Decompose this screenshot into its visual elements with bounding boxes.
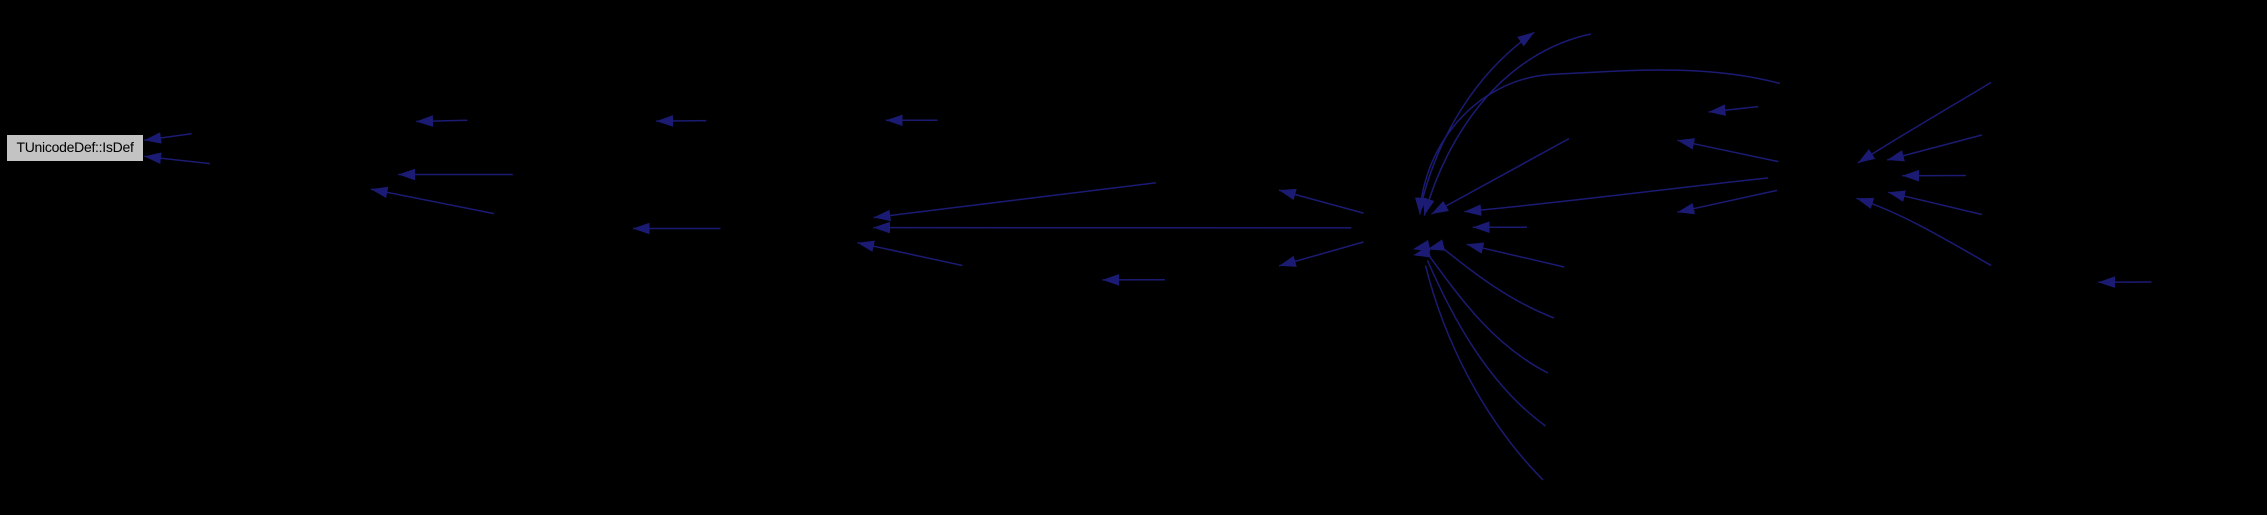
- edge Cdn1 curve from (1548,373) into fan lower: [1430, 256, 1549, 373]
- edge Cup1 curve fan up to tip (1534,32): [1422, 32, 1535, 203]
- edge E6c chain arrow right row1: [886, 119, 938, 121]
- node TUnicodeDef::IsDef (root, grey): [6, 134, 144, 162]
- edge E4 col2 middle horizontal: [398, 174, 513, 176]
- edge E11 slant up-left to (1279,190): [1279, 190, 1364, 213]
- edge E1 into root top-right: [144, 134, 191, 140]
- edge Cs4 curve from (1991,266) up into S (1856,198): [1857, 198, 1992, 265]
- edge Et1 short slant into (1708,112): [1709, 107, 1759, 112]
- edge E6 chain arrow mid: [656, 120, 706, 123]
- edge Cdn2 curve from (1545,426) into fan lower: [1428, 261, 1546, 427]
- edge E3 col2 top chain: [416, 120, 467, 121]
- edge Es3 horizontal into S (1902,176): [1902, 175, 1966, 177]
- edge Carc1 big arc from (1780,83) left-down into fan top: [1420, 70, 1780, 215]
- edge E7 long slant to (873,217): [874, 183, 1156, 218]
- edge Ea4 short horizontal into fan (1473,227): [1473, 226, 1527, 228]
- edge E5 col2 lower slant: [371, 189, 494, 214]
- fan lower blob arrowheads: [1413, 240, 1431, 252]
- edge Es5 slant into S (1888,192): [1888, 192, 1982, 214]
- edge Ea3 long gentle arc into fan (1464,212): [1464, 178, 1768, 212]
- edge arcB curve from (1991,82) into S (1858,163): [1858, 82, 1991, 163]
- edge Cdn3 curve from (1543,480) into fan lower: [1426, 266, 1544, 481]
- edge E9 slant to (857,243): [857, 243, 962, 266]
- edge E10 horizontal arrow y=280: [1102, 279, 1165, 281]
- edge E6b chain arrow mid row2: [633, 228, 721, 230]
- edge E2 into root bottom-right: [144, 156, 210, 163]
- edge Es2 slant into S (1887,160): [1887, 135, 1982, 160]
- edge Eb slant into fan lower (1466,244): [1467, 244, 1565, 267]
- edge Et3 slant into (1677,212): [1677, 190, 1777, 212]
- edge Ea2 straight into fan upper (1431,214): [1431, 139, 1569, 214]
- edge Efr far right horizontal arrow: [2098, 281, 2151, 283]
- edge Et2 slant into (1677,140): [1677, 140, 1778, 161]
- edge Cup2 curve from (1591,34) down into fan top: [1424, 34, 1591, 216]
- edge E12 slant down-left to (1279,266): [1279, 242, 1363, 266]
- edge E8 long horizontal y=228: [873, 227, 1351, 229]
- edge Cdn0 curve from (1554,318) into fan lower: [1444, 249, 1555, 318]
